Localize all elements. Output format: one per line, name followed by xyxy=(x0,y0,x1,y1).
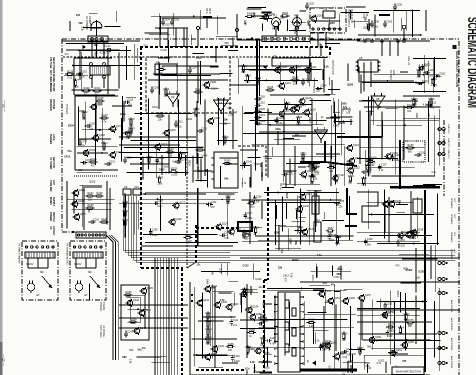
transistor Q136 xyxy=(404,231,418,239)
wire xyxy=(76,145,117,147)
svg-text:0.022: 0.022 xyxy=(247,218,253,220)
node terminal xyxy=(95,246,97,248)
resistor R154 xyxy=(253,226,260,236)
wire xyxy=(262,303,272,305)
resistor R168 xyxy=(247,329,256,338)
wire xyxy=(177,100,179,161)
svg-text:R118: R118 xyxy=(245,75,251,78)
wire xyxy=(83,186,102,188)
svg-text:R113: R113 xyxy=(196,88,202,91)
resistor R114 xyxy=(291,76,300,85)
svg-text:Q105: Q105 xyxy=(79,189,86,192)
wire xyxy=(272,147,274,156)
svg-text:1/4W: 1/4W xyxy=(206,279,209,285)
svg-text:R171: R171 xyxy=(325,340,332,343)
long wire xyxy=(240,257,460,259)
wire junction xyxy=(72,65,74,67)
svg-text:R605: R605 xyxy=(188,160,191,167)
label text xyxy=(49,134,55,145)
svg-text:220: 220 xyxy=(98,103,103,106)
transistor Q119 xyxy=(302,108,316,116)
wire xyxy=(331,116,353,118)
terminal pair xyxy=(438,262,448,265)
wire xyxy=(434,245,436,292)
IC pin xyxy=(300,296,304,298)
svg-text:680: 680 xyxy=(228,107,233,110)
svg-text:R142: R142 xyxy=(365,164,372,167)
svg-text:C104: C104 xyxy=(164,18,170,21)
wire xyxy=(160,16,162,35)
svg-text:TRANS: TRANS xyxy=(52,83,55,92)
svg-text:Q140: Q140 xyxy=(133,299,140,302)
wire thick bar xyxy=(300,369,357,372)
resistor R124 xyxy=(129,127,136,136)
wire xyxy=(315,20,340,22)
svg-text:3.3k: 3.3k xyxy=(296,210,301,213)
svg-text:IC201: IC201 xyxy=(312,86,315,93)
wire xyxy=(357,40,430,42)
wire xyxy=(437,194,439,245)
wire xyxy=(277,131,279,145)
wire xyxy=(240,149,258,151)
svg-text:U6: U6 xyxy=(219,101,223,105)
wire junction xyxy=(406,339,408,341)
wire xyxy=(124,201,126,232)
svg-text:NOT USED: NOT USED xyxy=(99,325,102,338)
wire xyxy=(247,7,265,9)
resistor R177 xyxy=(73,79,80,89)
wire xyxy=(341,104,343,128)
wire xyxy=(159,28,161,47)
capacitor C147 xyxy=(342,348,353,356)
svg-text:R114: R114 xyxy=(293,76,299,79)
capacitor C157 xyxy=(81,159,92,164)
wire xyxy=(155,150,157,178)
svg-text:AEP MODEL: AEP MODEL xyxy=(450,338,453,352)
transistor Q161 xyxy=(389,349,403,357)
svg-text:100: 100 xyxy=(78,169,83,172)
wire xyxy=(434,57,436,87)
wire xyxy=(191,34,193,45)
wire xyxy=(274,296,276,344)
svg-text:SYSTEM: SYSTEM xyxy=(52,99,55,109)
svg-text:IC201: IC201 xyxy=(286,173,293,176)
wire xyxy=(263,300,265,368)
svg-text:56k: 56k xyxy=(224,178,229,181)
bus wire xyxy=(126,196,230,253)
svg-text:0.022: 0.022 xyxy=(378,360,385,363)
separator dotted xyxy=(74,175,118,177)
transistor Q113 xyxy=(154,143,168,151)
wire xyxy=(128,308,148,310)
svg-text:SPEAKER: SPEAKER xyxy=(450,198,453,209)
wire xyxy=(77,152,108,154)
wire xyxy=(27,258,29,268)
op-amp U2 xyxy=(167,91,180,107)
transistor Q121 xyxy=(299,170,313,178)
svg-text:Q131: Q131 xyxy=(306,193,313,196)
node terminal xyxy=(79,246,81,248)
wire xyxy=(95,258,97,268)
wire xyxy=(82,129,117,131)
AC inlet box xyxy=(88,36,108,42)
resistor R157 xyxy=(326,227,335,236)
wire xyxy=(324,212,326,219)
wire xyxy=(283,99,285,177)
wire xyxy=(368,97,370,177)
bus wire xyxy=(176,258,178,375)
bus dashed H1 xyxy=(140,46,330,48)
terminal pair xyxy=(438,128,445,131)
wire xyxy=(267,108,269,177)
svg-text:C113: C113 xyxy=(201,127,207,130)
transistor Q148 xyxy=(240,290,254,298)
svg-text:POWER: POWER xyxy=(49,212,52,221)
transistor Q135 xyxy=(388,200,402,208)
wire xyxy=(268,124,312,126)
capacitor C128 xyxy=(361,169,372,177)
svg-text:100: 100 xyxy=(416,276,421,279)
capacitor C149 xyxy=(319,343,328,351)
svg-text:IC302: IC302 xyxy=(333,125,340,128)
wire xyxy=(342,361,366,363)
svg-text:220: 220 xyxy=(260,343,265,346)
node terminal xyxy=(25,246,27,248)
wire xyxy=(328,19,330,31)
wire xyxy=(194,287,196,367)
svg-text:R136: R136 xyxy=(348,175,355,178)
svg-text:4.7u: 4.7u xyxy=(423,104,428,107)
wire xyxy=(198,188,200,246)
svg-text:U5: U5 xyxy=(359,56,363,60)
node terminal xyxy=(103,63,106,66)
svg-text:— 15 —: — 15 — xyxy=(2,353,6,366)
internal resistor xyxy=(285,344,289,352)
wire xyxy=(158,14,160,30)
capacitor C106 xyxy=(150,86,159,93)
svg-text:R162: R162 xyxy=(206,320,213,323)
wire xyxy=(364,354,423,356)
wire junction xyxy=(413,243,415,245)
svg-text:R126: R126 xyxy=(168,148,175,151)
IC U4 xyxy=(272,54,310,66)
wire xyxy=(200,61,202,105)
resistor R103 xyxy=(100,114,109,123)
wire xyxy=(238,227,262,229)
terminal pin xyxy=(277,37,280,40)
transistor Q160 xyxy=(401,341,415,349)
wire xyxy=(377,243,439,245)
wire junction xyxy=(165,172,167,174)
svg-text:U8: U8 xyxy=(376,97,380,101)
svg-text:680: 680 xyxy=(225,42,230,45)
resistor R100 xyxy=(82,87,91,96)
wire xyxy=(162,75,211,77)
svg-text:4.7k: 4.7k xyxy=(335,242,340,245)
svg-text:R111: R111 xyxy=(159,66,165,69)
svg-text:C304: C304 xyxy=(307,20,310,27)
wire xyxy=(295,210,297,219)
wire junction xyxy=(145,193,147,195)
wire xyxy=(326,117,340,119)
svg-text:Q310: Q310 xyxy=(263,352,270,355)
svg-text:2.2k: 2.2k xyxy=(245,81,250,84)
wire xyxy=(215,103,232,105)
capacitor C113 xyxy=(197,127,208,132)
wire xyxy=(297,196,299,235)
wire xyxy=(103,77,105,88)
svg-text:C412: C412 xyxy=(64,156,71,159)
wire junction xyxy=(137,308,139,310)
internal resistor xyxy=(292,328,296,336)
wire xyxy=(296,65,298,85)
wire xyxy=(102,108,104,148)
transformer winding xyxy=(25,252,55,258)
svg-text:R169: R169 xyxy=(309,319,316,322)
terminal pin xyxy=(270,37,273,40)
svg-text:LINE OUT: LINE OUT xyxy=(447,149,449,160)
wire xyxy=(109,188,111,230)
wire thick xyxy=(345,225,357,227)
svg-text:SP B: SP B xyxy=(208,8,211,14)
wire xyxy=(304,302,306,366)
wire xyxy=(215,48,217,62)
resistor R152 xyxy=(242,230,249,240)
resistor R142 xyxy=(365,163,372,173)
svg-text:0.022: 0.022 xyxy=(173,161,180,164)
svg-text:C135: C135 xyxy=(152,229,158,232)
transistor Q102 xyxy=(92,134,106,142)
svg-text:3.3k: 3.3k xyxy=(290,273,293,278)
resistor R174 xyxy=(398,326,405,336)
svg-text:Q159: Q159 xyxy=(375,336,382,339)
wire junction xyxy=(230,316,232,318)
svg-text:C118: C118 xyxy=(259,95,265,98)
wire xyxy=(322,220,344,222)
svg-text:U2: U2 xyxy=(171,95,175,99)
transistor Q122 xyxy=(346,166,360,174)
label text xyxy=(49,197,55,207)
wire xyxy=(360,74,362,93)
node terminal xyxy=(95,234,97,236)
svg-text:C117: C117 xyxy=(128,130,134,133)
svg-text:R140: R140 xyxy=(368,158,375,161)
svg-text:For United Kingdom: For United Kingdom xyxy=(18,243,21,264)
wire xyxy=(333,112,340,114)
wire junction xyxy=(146,140,148,142)
svg-text:JACK: JACK xyxy=(52,134,55,141)
wire xyxy=(309,32,311,44)
transistor Q159 xyxy=(368,336,382,344)
resistor R144 xyxy=(405,104,414,113)
wire xyxy=(360,80,374,82)
svg-text:220: 220 xyxy=(429,104,434,107)
svg-text:0.047: 0.047 xyxy=(318,43,321,50)
capacitor C104 xyxy=(161,18,170,26)
wire xyxy=(333,120,352,122)
svg-text:56k: 56k xyxy=(211,287,216,290)
svg-text:F1 2A: F1 2A xyxy=(104,45,111,48)
wire xyxy=(243,133,345,135)
wire xyxy=(127,294,146,296)
svg-text:0-220V: 0-220V xyxy=(26,264,34,266)
wire junction xyxy=(422,301,424,303)
wire xyxy=(214,286,216,368)
svg-text:C144: C144 xyxy=(233,319,239,322)
wire xyxy=(220,157,238,159)
transformer winding xyxy=(73,252,103,258)
wire thick xyxy=(237,39,262,41)
wire xyxy=(192,338,238,340)
wire xyxy=(96,169,102,171)
wire xyxy=(95,95,97,135)
AC cord arc xyxy=(91,22,102,28)
wire xyxy=(349,306,351,362)
resistor R180 xyxy=(157,176,164,186)
svg-text:SP A: SP A xyxy=(205,8,208,14)
wire xyxy=(381,112,383,160)
capacitor C129 xyxy=(391,154,400,162)
wire xyxy=(359,301,361,352)
transistor Q107 xyxy=(73,213,87,221)
wire xyxy=(221,45,238,47)
box label xyxy=(392,367,424,375)
transistor Q126 xyxy=(384,152,398,160)
svg-text:R166: R166 xyxy=(260,337,267,340)
resistor R102 xyxy=(82,111,89,121)
wire xyxy=(309,47,311,56)
wire thick steps xyxy=(357,192,380,222)
transistor Q163 xyxy=(309,15,323,23)
wire xyxy=(336,188,338,246)
svg-text:MAIN AMP SECTION: MAIN AMP SECTION xyxy=(396,370,421,374)
svg-text:Q109: Q109 xyxy=(281,66,288,69)
svg-text:IC302: IC302 xyxy=(292,259,299,262)
internal resistor xyxy=(292,348,296,356)
label text xyxy=(447,138,449,149)
fuse F1 xyxy=(104,45,111,52)
svg-text:100u: 100u xyxy=(249,206,255,209)
IC U5 xyxy=(356,56,381,72)
transistor Q130 xyxy=(168,218,182,226)
wire xyxy=(266,202,328,204)
wire xyxy=(161,17,226,19)
IC pin xyxy=(300,355,304,357)
wire xyxy=(390,291,392,365)
svg-text:100u: 100u xyxy=(373,27,379,29)
label text xyxy=(49,226,55,236)
svg-text:0.022: 0.022 xyxy=(161,49,168,52)
svg-text:OUT: OUT xyxy=(453,214,455,219)
IC U9 xyxy=(123,185,131,195)
wire xyxy=(79,50,81,80)
bus dashed V x141 xyxy=(140,47,142,268)
resistor R175 xyxy=(406,319,415,328)
svg-text:0.022: 0.022 xyxy=(186,240,193,243)
svg-text:Q205: Q205 xyxy=(329,22,336,25)
wire junction xyxy=(162,113,164,115)
svg-text:PHONES: PHONES xyxy=(49,134,52,145)
wire xyxy=(347,361,349,373)
wire xyxy=(81,52,83,90)
svg-text:R153: R153 xyxy=(249,199,256,202)
wire xyxy=(136,356,161,358)
svg-text:Q205: Q205 xyxy=(263,366,270,369)
wire xyxy=(119,152,188,154)
wire junction xyxy=(399,202,401,204)
capacitor C137 xyxy=(244,212,253,220)
label text xyxy=(205,8,211,14)
wire junction xyxy=(88,209,90,211)
label text xyxy=(389,70,395,80)
wire xyxy=(111,235,118,360)
wire xyxy=(124,147,204,149)
wire xyxy=(288,302,290,346)
svg-text:680: 680 xyxy=(342,102,347,105)
capacitor C126 xyxy=(415,151,426,156)
svg-text:R106: R106 xyxy=(98,97,105,100)
terminal pin xyxy=(302,37,305,40)
resistor R122 xyxy=(194,108,201,118)
svg-text:Q160: Q160 xyxy=(408,341,415,344)
wire xyxy=(313,329,329,331)
svg-text:0.022: 0.022 xyxy=(234,361,240,363)
wire junction xyxy=(274,70,276,72)
svg-text:U7: U7 xyxy=(319,131,323,135)
wire junction xyxy=(205,170,207,172)
black component xyxy=(238,222,252,231)
svg-text:C119: C119 xyxy=(259,102,265,105)
label text xyxy=(49,157,55,169)
capacitor C138 xyxy=(327,234,336,242)
wire xyxy=(359,111,361,165)
capacitor C105 xyxy=(170,18,179,25)
wire xyxy=(145,192,238,194)
wire xyxy=(126,296,139,298)
wire xyxy=(368,213,434,215)
svg-text:C136: C136 xyxy=(256,195,262,198)
bus dashed H y228 xyxy=(196,227,238,229)
IC U10 xyxy=(133,185,141,195)
wire xyxy=(340,12,369,14)
wire xyxy=(125,54,127,76)
capacitor C146 xyxy=(257,320,268,328)
wire thick xyxy=(399,140,401,188)
svg-text:R174: R174 xyxy=(398,326,405,329)
resistor R167 xyxy=(258,314,267,323)
wire xyxy=(140,198,223,200)
svg-text:2.2k: 2.2k xyxy=(128,359,131,364)
wire junction xyxy=(140,163,142,165)
capacitor C123 xyxy=(275,117,284,125)
wire xyxy=(121,118,123,161)
wire xyxy=(230,84,257,86)
resistor R151 xyxy=(242,231,251,240)
svg-text:100: 100 xyxy=(284,108,289,111)
svg-text:R141: R141 xyxy=(361,177,368,180)
wire xyxy=(374,74,439,76)
wire xyxy=(91,42,93,58)
node terminal xyxy=(339,28,341,30)
wire xyxy=(371,347,442,349)
svg-text:Q118: Q118 xyxy=(296,105,303,108)
node terminal xyxy=(31,246,33,248)
wire xyxy=(370,234,432,236)
internal resistor xyxy=(292,308,296,316)
svg-text:R131: R131 xyxy=(296,116,303,119)
transistor Q104 xyxy=(109,151,123,159)
diode D100 xyxy=(417,80,429,85)
